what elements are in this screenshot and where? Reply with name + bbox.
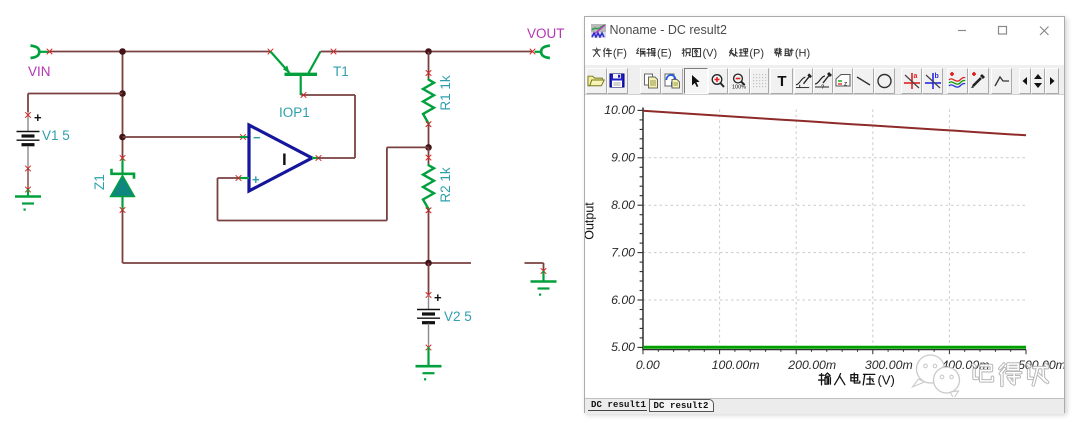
svg-text:IOP1: IOP1 [279, 105, 310, 120]
svg-text:+: + [34, 110, 42, 125]
svg-text:6.00: 6.00 [611, 293, 635, 307]
svg-text:9.00: 9.00 [611, 151, 635, 165]
svg-text:(V): (V) [702, 48, 717, 60]
svg-text:(F): (F) [612, 48, 626, 60]
svg-text:b: b [934, 73, 938, 80]
svg-text:V2 5: V2 5 [444, 309, 472, 324]
svg-text:VIN: VIN [28, 64, 51, 79]
svg-text:(V): (V) [877, 373, 894, 388]
svg-text:(H): (H) [794, 48, 809, 60]
svg-text:100.00m: 100.00m [711, 358, 759, 372]
svg-text:T: T [777, 73, 786, 88]
svg-text:R2 1k: R2 1k [438, 167, 453, 203]
svg-text:a: a [913, 73, 917, 80]
svg-text:5.00: 5.00 [611, 340, 635, 354]
svg-text:(E): (E) [657, 48, 672, 60]
svg-text:T1: T1 [333, 64, 349, 79]
svg-text:8.00: 8.00 [611, 198, 635, 212]
svg-text:7.00: 7.00 [611, 245, 635, 259]
svg-text:100%: 100% [732, 84, 746, 89]
svg-text:200.00m: 200.00m [787, 358, 836, 372]
svg-text:VOUT: VOUT [527, 26, 565, 41]
svg-text:500.00m: 500.00m [1018, 358, 1064, 372]
svg-text:(P): (P) [749, 48, 764, 60]
svg-text:I: I [282, 150, 287, 169]
svg-text:+: + [434, 290, 442, 305]
svg-text:V1 5: V1 5 [42, 128, 70, 143]
svg-text:300.00m: 300.00m [864, 358, 912, 372]
svg-text:10.00: 10.00 [604, 103, 635, 117]
svg-text:0.00: 0.00 [635, 358, 659, 372]
svg-text:z: z [844, 80, 847, 87]
svg-text:Output: Output [585, 202, 597, 240]
svg-text:Z1: Z1 [92, 174, 107, 190]
svg-text:R1 1k: R1 1k [438, 75, 453, 111]
svg-text:−: − [253, 130, 261, 145]
svg-text:+: + [252, 172, 260, 187]
